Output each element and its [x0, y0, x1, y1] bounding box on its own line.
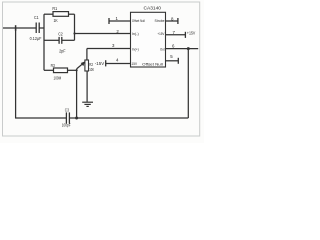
svg-text:1K: 1K [54, 18, 59, 23]
junction dot bottom wiper [75, 117, 78, 120]
svg-text:100pF: 100pF [62, 122, 71, 127]
wire R1 top right [69, 13, 75, 15]
wire output vertical [187, 49, 189, 118]
ground bar2 [84, 103, 90, 105]
svg-text:In(-): In(-) [132, 31, 139, 36]
wire pin4 [106, 63, 131, 65]
svg-text:CA3140: CA3140 [144, 5, 162, 10]
wire to pin2 [75, 33, 131, 35]
svg-text:Offset Null: Offset Null [142, 62, 163, 67]
wire pin5 [166, 60, 179, 62]
svg-text:-15V: -15V [131, 61, 138, 66]
junction dot R3 wiper [76, 69, 78, 71]
svg-text:2pF: 2pF [59, 48, 66, 53]
ground bar1 [82, 101, 93, 103]
svg-text:C2: C2 [58, 32, 63, 37]
wire pin3 horizontal [87, 48, 131, 50]
junction dot output [187, 47, 190, 50]
svg-text:Strobe: Strobe [155, 18, 166, 23]
wire bottom rail right [69, 117, 188, 119]
wire R2 bottom lead [86, 71, 88, 102]
wire C2 branch right [62, 39, 75, 41]
wire pin1 [109, 20, 131, 22]
terminal tick pin1 [108, 18, 110, 24]
resistor R3 [54, 68, 68, 73]
wire C1 to bus [39, 27, 44, 29]
wire pin7 [166, 34, 186, 36]
wire R2 top lead [86, 49, 88, 61]
wire R1 top left [44, 13, 53, 15]
wire vertical x74.5 [74, 14, 76, 40]
terminal tick -15V [105, 60, 107, 66]
wire wiper vertical [76, 69, 78, 118]
svg-text:0.12μF: 0.12μF [30, 36, 42, 41]
wire pin8 [166, 20, 178, 22]
wire C2 branch left [44, 39, 59, 41]
wire R3 lead left [44, 69, 54, 71]
svg-text:R1: R1 [52, 6, 57, 11]
svg-text:+15V: +15V [157, 31, 164, 36]
potentiometer R2 body [85, 60, 89, 71]
terminal tick pin5 [177, 58, 179, 64]
op-amp IC U1 box [131, 12, 166, 67]
wire input left [3, 27, 36, 29]
svg-text:100M: 100M [54, 75, 62, 80]
svg-text:+15V: +15V [187, 31, 196, 36]
border frame [3, 2, 200, 136]
svg-text:R3: R3 [51, 63, 56, 68]
capacitor C2 plates [58, 37, 60, 44]
svg-text:-15V: -15V [95, 61, 105, 66]
svg-text:In(+): In(+) [132, 47, 139, 52]
wire left loop vertical [15, 28, 17, 118]
resistor R1 [53, 12, 69, 17]
node input junction tick [15, 25, 17, 31]
terminal tick pin8 [177, 18, 179, 24]
wire bottom rail left [15, 117, 66, 119]
wire R3 lead right [68, 69, 77, 71]
wire vertical bus x44 [43, 14, 45, 70]
junction dot pin2 [73, 32, 75, 34]
wire pot arrow diagonal [77, 64, 83, 69]
svg-text:C3: C3 [65, 107, 70, 112]
capacitor C1 plates [35, 23, 37, 34]
ground bar3 [86, 105, 88, 107]
wire pin6 out [166, 48, 199, 50]
svg-text:Offset Null: Offset Null [132, 18, 145, 23]
svg-text:10K: 10K [89, 67, 94, 72]
capacitor C3 plates [65, 112, 67, 123]
terminal tick pin7 [184, 32, 186, 38]
svg-text:C1: C1 [34, 15, 39, 20]
svg-text:Out: Out [160, 46, 165, 51]
pot arrow head [81, 61, 85, 66]
